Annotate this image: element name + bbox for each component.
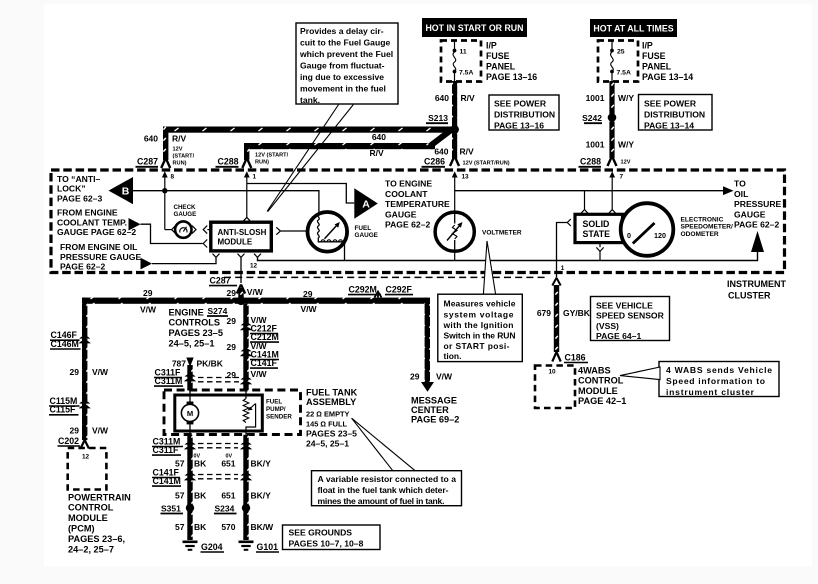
svg-text:29: 29 [70,425,80,435]
svg-text:PAGE 69–2: PAGE 69–2 [411,415,459,425]
svg-text:TEMPERATURE: TEMPERATURE [385,199,450,209]
svg-text:POWERTRAIN: POWERTRAIN [68,492,131,502]
svg-text:tank.: tank. [300,95,320,105]
svg-text:PAGE 62–2: PAGE 62–2 [734,220,779,230]
label TO OIL PRESSURE GAUGE [734,179,782,230]
ground G204 [183,542,225,552]
svg-text:R/V: R/V [461,93,476,103]
main 29 V/W bus wire [82,298,430,304]
svg-text:29: 29 [227,370,237,380]
svg-text:TO: TO [734,179,746,189]
svg-text:FUSE: FUSE [486,51,510,61]
svg-text:ENGINE: ENGINE [169,307,204,317]
svg-text:HOT IN START OR RUN: HOT IN START OR RUN [425,23,523,33]
pin 1 arrow [244,171,257,217]
label C292M C292F [348,284,413,294]
svg-text:CONTROLS: CONTROLS [169,318,221,328]
svg-text:MESSAGE: MESSAGE [411,396,457,406]
svg-text:C286: C286 [424,157,445,167]
svg-text:or START posi-: or START posi- [444,341,510,351]
wire 1001 W/Y from S242 to C288 [609,122,614,159]
svg-text:PRESSURE GAUGE: PRESSURE GAUGE [60,252,141,262]
header HOT IN START OR RUN [422,18,527,37]
fuse F25 7.5A [610,41,631,81]
wire oil pressure to anti-slosh stub [152,258,216,264]
fuse panel box (left, I/P fuse panel) [441,41,481,82]
junction dot pin8/B wire [162,188,167,193]
callout note: variable resistor [312,471,462,506]
svg-text:S242: S242 [582,113,602,123]
svg-text:PAGE 62–2: PAGE 62–2 [60,262,105,272]
arrow from oil pressure [141,258,153,270]
solid state top stubs [581,191,617,214]
svg-text:12V (START/RUN): 12V (START/RUN) [463,161,510,167]
svg-text:BK: BK [194,458,207,468]
svg-text:25: 25 [617,49,625,56]
svg-text:29: 29 [303,289,313,299]
connector C146 [50,330,91,349]
svg-text:24–2, 25–7: 24–2, 25–7 [68,544,114,554]
svg-text:0: 0 [627,231,631,240]
callout note: delay circuit explanation [296,23,398,105]
svg-text:R/V: R/V [172,134,187,144]
arrow to oil pressure gauge text [723,186,734,195]
svg-text:W/Y: W/Y [618,93,634,103]
svg-text:640: 640 [144,134,158,144]
fuel sender variable resistor [243,390,255,435]
powertrain control module dashed box [68,448,107,490]
solid state box [575,214,623,242]
voltmeter [435,212,474,251]
svg-text:M: M [187,409,193,418]
svg-text:G204: G204 [201,542,223,552]
svg-text:V/W: V/W [247,287,264,297]
svg-text:A: A [362,199,370,211]
svg-text:A variable resistor connected: A variable resistor connected to a [318,474,457,484]
connector C286 [422,156,510,167]
svg-text:29: 29 [227,316,237,326]
callout tail from variable resistor note [352,418,393,471]
svg-text:float in the fuel tank which d: float in the fuel tank which deter- [318,485,449,495]
svg-text:C202: C202 [58,436,79,446]
svg-text:120: 120 [654,231,666,240]
callout note: 4 WABS sends vehicle speed [659,362,779,397]
wire 787 PK/BK vertical [187,365,192,391]
anti-slosh lower-left chevron [203,240,207,248]
svg-text:PAGE 13–16: PAGE 13–16 [494,121,544,131]
svg-text:10: 10 [549,368,557,375]
svg-text:1001: 1001 [586,140,605,150]
triangle A [354,188,378,219]
svg-text:11: 11 [460,49,467,56]
harness dashed rows [198,377,239,379]
connector C287 (top) [136,157,171,169]
connector C288 (right) [579,156,631,167]
svg-text:29: 29 [227,342,237,352]
connector C141 [227,341,279,368]
svg-text:BK/Y: BK/Y [251,490,272,500]
svg-text:system voltage: system voltage [444,309,514,319]
svg-text:29: 29 [227,288,237,298]
svg-text:C287: C287 [210,275,231,285]
svg-text:FROM ENGINE OIL: FROM ENGINE OIL [60,242,137,252]
svg-text:C287: C287 [137,157,158,167]
svg-text:SENDER: SENDER [266,414,292,421]
svg-text:570: 570 [221,522,235,532]
svg-text:Measures vehicle: Measures vehicle [444,299,516,309]
svg-text:OIL: OIL [734,189,748,199]
svg-text:C288: C288 [217,157,238,167]
svg-text:C186: C186 [565,352,586,362]
electronic speedometer/odometer [621,203,674,256]
check gauge indicator [165,221,211,237]
anti-slosh right chevron and wire to fuel gauge [276,227,280,234]
arrow from coolant temp [129,218,141,231]
svg-text:ANTI-SLOSH: ANTI-SLOSH [218,228,267,237]
fuse panel box (right, I/P fuse panel) [598,41,638,82]
svg-text:R/V: R/V [370,148,385,158]
fuel pump/sender inner box [175,395,262,431]
svg-text:PAGE 62–3: PAGE 62–3 [57,193,102,203]
svg-text:C115F: C115F [50,405,77,415]
pin 7 arrow [609,171,623,210]
svg-text:MODULE: MODULE [68,513,108,523]
wire pin1 to triangle A [247,184,354,204]
ground G101 [239,542,280,552]
svg-text:FUEL TANK: FUEL TANK [306,388,358,398]
label FUEL PUMP/SENDER [266,398,292,420]
fuse F11 7.5A [453,41,474,81]
svg-text:HOT AT ALL TIMES: HOT AT ALL TIMES [593,24,673,34]
svg-text:12V: 12V [173,147,183,153]
svg-text:Gauge from fluctuat-: Gauge from fluctuat- [300,60,385,70]
label FUEL TANK ASSEMBLY [306,388,358,449]
connector C288 (top) [216,153,289,169]
svg-text:PAGES 10–7, 10–8: PAGES 10–7, 10–8 [289,539,364,549]
svg-text:V/W: V/W [92,425,109,435]
svg-text:CONTROL: CONTROL [578,376,624,386]
svg-text:640: 640 [434,147,448,157]
label ELECTRONIC SPEEDOMETER/ODOMETER [681,216,734,238]
fuel pump motor M1 [181,390,198,435]
svg-text:FUSE: FUSE [642,51,666,61]
svg-text:SPEED SENSOR: SPEED SENSOR [596,311,665,321]
svg-text:LOCK”: LOCK” [57,184,86,194]
4WABS control module dashed box [535,366,575,409]
svg-text:C311M: C311M [155,376,183,386]
svg-text:PAGES 23–5: PAGES 23–5 [306,428,357,438]
callout pointer to voltmeter [483,241,495,294]
svg-text:TO ENGINE: TO ENGINE [385,179,432,189]
wire from B to fuel gauge [133,191,319,214]
svg-text:(PCM): (PCM) [68,524,95,534]
see power distribution 13-16 box [489,95,559,131]
anti-slosh top pin chevron [243,217,251,221]
svg-text:PAGE 13–16: PAGE 13–16 [486,72,537,82]
svg-text:ing due to excessive: ing due to excessive [300,72,384,82]
svg-text:12V (START/: 12V (START/ [255,153,289,159]
connector C115 [49,396,91,415]
svg-text:PUMP/: PUMP/ [266,406,286,413]
svg-text:CENTER: CENTER [411,405,449,415]
svg-text:Provides a delay cir-: Provides a delay cir- [300,26,384,36]
svg-text:Speed information to: Speed information to [666,376,765,386]
svg-text:12V: 12V [621,160,631,166]
svg-text:S213: S213 [428,113,448,123]
svg-text:1: 1 [253,174,257,181]
svg-text:57: 57 [175,490,185,500]
connector at cluster exit (679 wire) [552,278,556,286]
svg-text:instrument cluster: instrument cluster [666,387,755,397]
fuel gauge [308,212,348,261]
label FROM ENGINE OIL PRESSURE [60,242,141,271]
svg-text:C141M: C141M [153,476,181,486]
svg-text:STATE: STATE [583,229,611,239]
wire 29 V/W sender branch vertical [243,304,248,391]
svg-text:PAGES 23–6,: PAGES 23–6, [68,534,125,544]
svg-text:CONTROL: CONTROL [68,503,114,513]
connector C186 [552,352,588,363]
connector C202 [58,436,89,449]
svg-text:SEE POWER: SEE POWER [494,99,547,109]
svg-text:V/W: V/W [251,369,268,379]
svg-text:PAGE 62–2: PAGE 62–2 [385,220,430,230]
svg-text:29: 29 [143,288,153,298]
svg-text:1: 1 [561,265,565,272]
arrow up to oil pressure text [751,231,764,252]
svg-text:DISTRIBUTION: DISTRIBUTION [644,110,705,120]
solid state bottom stub to bus [596,243,603,261]
svg-text:Switch in the RUN: Switch in the RUN [444,331,516,341]
svg-text:C311F: C311F [153,445,180,455]
svg-text:PAGE 64–1: PAGE 64–1 [596,331,641,341]
svg-text:COOLANT TEMP.: COOLANT TEMP. [57,217,127,227]
svg-text:13: 13 [462,174,470,181]
svg-text:7.5A: 7.5A [459,70,473,77]
wire 57 BK below pump [187,435,192,540]
svg-text:57: 57 [175,522,185,532]
svg-text:BK/W: BK/W [251,522,275,532]
svg-text:S234: S234 [215,503,235,513]
svg-text:S274: S274 [208,306,228,316]
svg-text:7.5A: 7.5A [617,70,631,77]
connector dashed line C292 under cluster [224,276,547,278]
left branch vertical wire [82,298,87,441]
callout tail from 4WABS note [620,367,660,380]
message center branch wire [425,298,430,383]
connector C311 labels [154,367,196,386]
svg-text:SOLID: SOLID [583,219,610,229]
svg-text:RUN): RUN) [173,161,187,167]
anti-slosh bottom stubs [213,250,758,283]
svg-text:CLUSTER: CLUSTER [728,291,771,301]
svg-text:FROM ENGINE: FROM ENGINE [57,208,118,218]
svg-text:8: 8 [171,174,175,181]
svg-text:V/W: V/W [92,367,109,377]
label 4WABS CONTROL MODULE [578,365,626,406]
svg-text:G101: G101 [257,542,279,552]
svg-text:SEE GROUNDS: SEE GROUNDS [289,527,353,537]
svg-text:PRESSURE: PRESSURE [734,199,782,209]
svg-text:mines the amount of fuel in ta: mines the amount of fuel in tank. [318,496,445,506]
svg-text:SEE VEHICLE: SEE VEHICLE [596,300,653,310]
svg-text:I/P: I/P [642,41,653,51]
svg-text:24–5, 25–1: 24–5, 25–1 [169,339,215,349]
svg-text:651: 651 [221,490,235,500]
wire coolant temp to anti-slosh [141,224,203,243]
svg-text:29: 29 [410,371,420,381]
svg-text:with the Ignition: with the Ignition [443,320,514,330]
label TO ENGINE COOLANT TEMPERATURE GAUGE [385,179,450,230]
wire 1001 W/Y from fuse to S242 [609,81,614,114]
svg-text:GAUGE: GAUGE [174,211,197,218]
label I/P FUSE PANEL PAGE 13-16 [486,41,537,83]
svg-text:C292M: C292M [349,284,377,294]
connector C141 below tank [152,467,252,486]
svg-text:(START/: (START/ [173,154,195,160]
svg-text:679: 679 [537,308,551,318]
svg-text:MODULE: MODULE [578,386,618,396]
svg-text:PAGE 42–1: PAGE 42–1 [578,396,626,406]
splice S213 dot redraw [450,125,459,134]
svg-text:DISTRIBUTION: DISTRIBUTION [494,110,555,120]
svg-text:GAUGE: GAUGE [385,209,417,219]
label MESSAGE CENTER [411,396,459,425]
svg-text:7: 7 [620,174,624,181]
svg-text:SPEEDOMETER/: SPEEDOMETER/ [681,224,734,231]
svg-text:12: 12 [250,263,258,270]
svg-text:GAUGE: GAUGE [734,209,766,219]
svg-text:22 Ω EMPTY: 22 Ω EMPTY [306,409,350,418]
svg-text:PANEL: PANEL [642,62,672,72]
connector C287 (below cluster) [209,275,245,293]
connector C212 [227,315,279,342]
svg-text:(VSS): (VSS) [596,321,619,331]
svg-text:V/W: V/W [140,305,157,315]
svg-text:640: 640 [435,93,449,103]
svg-text:INSTRUMENT: INSTRUMENT [727,279,786,289]
wire 679 GY/BK [554,285,559,352]
svg-text:VOLTMETER: VOLTMETER [482,229,522,236]
svg-text:C141F: C141F [251,358,278,368]
wire 29 V/W from C287 to splice [238,288,243,300]
svg-text:BK/Y: BK/Y [251,458,272,468]
svg-text:cuit to the Fuel Gauge: cuit to the Fuel Gauge [300,37,390,47]
fuel tank assembly dashed box [164,390,301,435]
svg-text:S351: S351 [161,503,181,513]
wire 640 R/V upper horizontal run [144,127,456,167]
svg-text:651: 651 [221,458,235,468]
svg-text:COOLANT: COOLANT [385,189,428,199]
svg-text:29: 29 [70,367,80,377]
svg-text:BK: BK [194,522,207,532]
svg-text:FUEL: FUEL [266,398,282,405]
svg-text:which prevent the Fuel: which prevent the Fuel [299,49,393,59]
svg-text:GAUGE PAGE 62–2: GAUGE PAGE 62–2 [57,227,136,237]
see grounds box [283,525,381,550]
pin 8 arrow [162,171,175,229]
svg-text:RUN): RUN) [255,160,269,166]
header HOT AT ALL TIMES [590,19,677,37]
svg-text:C146M: C146M [51,339,79,349]
label FROM ENGINE COOLANT TEMP [57,208,136,237]
wire 640 R/V from fuse to S213 [452,81,457,127]
svg-text:GY/BK: GY/BK [563,308,591,318]
svg-text:PK/BK: PK/BK [197,358,224,368]
anti-slosh module box [211,222,271,251]
svg-text:ASSEMBLY: ASSEMBLY [306,397,356,407]
svg-text:MODULE: MODULE [218,238,253,247]
harness connector on sender wire [227,369,268,384]
wire 640 R/V lower horizontal run [244,131,451,161]
triangle B [109,177,134,204]
label I/P FUSE PANEL PAGE 13-14 [642,41,693,83]
svg-text:PAGE 13–14: PAGE 13–14 [644,121,694,131]
svg-text:tion.: tion. [444,351,462,361]
label ENGINE CONTROLS [169,307,223,348]
cluster bus wire to voltmeter/speedo [455,190,724,192]
svg-text:FUEL: FUEL [355,225,372,232]
svg-text:C292F: C292F [386,284,413,294]
callout tail from delay note to anti-slosh [267,105,339,212]
pin 13 arrow [452,171,469,260]
svg-text:PAGES 23–5: PAGES 23–5 [169,328,223,338]
arrow to message center [421,382,434,392]
connector C292 on bus [375,292,382,298]
label TO ANTI-LOCK [57,174,102,203]
connector C311 below tank [152,436,252,459]
svg-text:SEE POWER: SEE POWER [644,99,697,109]
svg-text:4WABS: 4WABS [578,365,611,375]
wire 640 R/V from S213 to C286 [452,134,457,159]
svg-text:ELECTRONIC: ELECTRONIC [681,216,724,223]
svg-text:W/Y: W/Y [618,140,634,150]
svg-text:24–5, 25–1: 24–5, 25–1 [306,438,349,448]
svg-text:GAUGE: GAUGE [355,232,379,239]
see vehicle speed sensor box [591,297,670,342]
callout note: measures vehicle system voltage [438,294,523,361]
svg-text:ODOMETER: ODOMETER [681,231,719,238]
svg-text:movement in the fuel: movement in the fuel [300,83,386,93]
svg-text:TO “ANTI–: TO “ANTI– [57,174,101,184]
splice S274 dot [237,296,246,305]
instrument cluster dashed box [51,170,785,273]
see power distribution 13-14 box [639,95,713,131]
svg-text:145 Ω FULL: 145 Ω FULL [306,419,347,428]
wire 651 BK/Y below sender [243,435,248,540]
svg-text:4 WABS sends Vehicle: 4 WABS sends Vehicle [666,365,772,375]
svg-text:BK: BK [194,490,207,500]
wire 787 PK/BK start arrow [172,358,224,369]
svg-text:V/W: V/W [436,371,453,381]
label POWERTRAIN CONTROL MODULE (PCM) [68,492,131,554]
svg-text:C288: C288 [580,157,601,167]
svg-text:640: 640 [372,132,386,142]
svg-text:12: 12 [82,453,90,460]
svg-text:R/V: R/V [460,147,475,157]
svg-text:PAGE 13–14: PAGE 13–14 [642,72,693,82]
svg-text:B: B [122,186,130,198]
svg-text:1001: 1001 [586,93,605,103]
svg-text:V/W: V/W [301,304,318,314]
svg-text:I/P: I/P [486,41,497,51]
solid state left chevron and wire down (pin 1 / 679) [557,219,571,278]
svg-text:PANEL: PANEL [486,62,516,72]
